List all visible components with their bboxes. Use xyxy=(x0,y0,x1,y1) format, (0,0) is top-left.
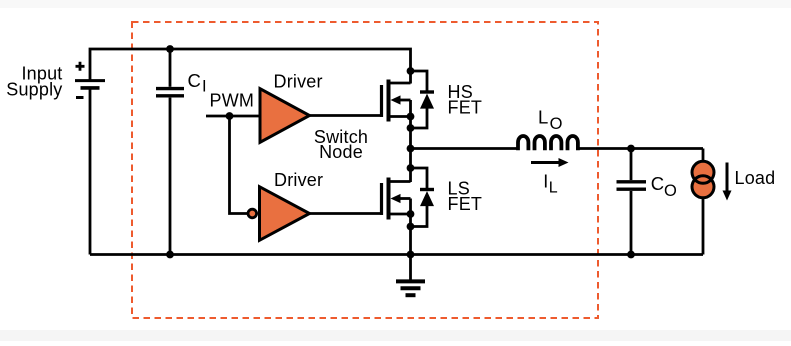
current source: Load xyxy=(692,161,714,198)
label: LO xyxy=(538,106,563,133)
inverter bubble on LS driver input xyxy=(248,209,257,218)
junction: HS source node xyxy=(407,113,415,121)
svg-text:FET: FET xyxy=(448,194,483,214)
wire: LS FET column (body down to ground rail) xyxy=(409,199,412,255)
capacitor CO xyxy=(617,149,647,255)
label: IL xyxy=(543,172,558,197)
svg-text:Driver: Driver xyxy=(274,72,323,92)
wire: FET column (HS body/source down to LS drain) xyxy=(409,100,412,182)
svg-text:I: I xyxy=(202,78,207,96)
driver U1 (high-side driver) xyxy=(260,89,310,143)
junction: HS drain diode tap xyxy=(407,67,415,75)
current arrow IL xyxy=(531,158,569,167)
wire: switch node to inductor xyxy=(411,147,518,150)
wire: top input rail (battery to HS FET drain) xyxy=(90,49,411,84)
svg-text:Supply: Supply xyxy=(6,80,62,100)
label: Switch Node xyxy=(314,127,368,162)
label: Input Supply xyxy=(6,64,62,100)
wire: PWM node to LS driver input xyxy=(230,116,249,214)
junction: HS diode anode node xyxy=(407,124,415,132)
junction: PWM node xyxy=(226,112,234,120)
IC boundary (dashed outline) xyxy=(132,22,598,318)
load current arrow xyxy=(723,163,732,201)
svg-text:C: C xyxy=(188,70,201,91)
diode: LS body diode xyxy=(411,168,435,227)
wire: battery negative lead xyxy=(89,89,92,255)
junction: CO bottom node xyxy=(627,251,635,259)
wire: PWM input xyxy=(206,115,260,118)
junction: CI bottom node xyxy=(166,251,174,259)
junction: LS source node xyxy=(407,210,415,218)
wire: HS driver output to HS FET gate xyxy=(309,114,383,117)
transistor Q2 LS FET xyxy=(382,178,411,220)
svg-text:O: O xyxy=(550,115,563,133)
svg-text:L: L xyxy=(538,106,548,127)
diode: HS body diode xyxy=(411,71,435,128)
label: HS FET xyxy=(448,82,483,118)
svg-text:Load: Load xyxy=(735,168,776,188)
junction: output node at CO top xyxy=(627,145,635,153)
junction: CI top node xyxy=(166,45,174,53)
label: CO xyxy=(651,173,677,200)
svg-text:C: C xyxy=(651,173,664,194)
wire: LS driver output to LS FET gate xyxy=(309,212,383,215)
wire: bottom ground rail xyxy=(90,253,703,256)
wire: inductor to output node xyxy=(579,147,704,150)
wire: load branch xyxy=(702,149,705,255)
junction: ground node xyxy=(407,251,415,259)
junction: LS diode anode node xyxy=(407,223,415,231)
inductor LO xyxy=(518,136,578,150)
svg-text:I: I xyxy=(543,172,548,192)
ground symbol xyxy=(396,255,425,296)
battery: input supply source xyxy=(75,62,105,98)
transistor Q1 HS FET xyxy=(382,80,411,122)
driver U2 (low-side driver) xyxy=(260,187,310,241)
svg-text:Driver: Driver xyxy=(274,170,323,190)
svg-text:PWM: PWM xyxy=(210,91,255,111)
junction: LS drain diode tap xyxy=(407,164,415,172)
svg-text:FET: FET xyxy=(448,98,483,118)
junction: switch node xyxy=(407,145,415,153)
svg-text:O: O xyxy=(664,182,677,200)
svg-text:Node: Node xyxy=(319,142,363,162)
svg-text:L: L xyxy=(549,180,558,197)
label: CI xyxy=(188,70,207,96)
capacitor CI xyxy=(156,49,184,255)
label: LS FET xyxy=(448,178,483,214)
